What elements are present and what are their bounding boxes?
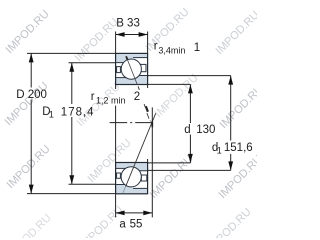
watermark IMPOD.RU bottom-right (206, 206, 254, 240)
watermark IMPOD.RU mid-bottom-left (86, 137, 134, 185)
right face extension line (147, 32, 149, 163)
contact line start mark (126, 56, 127, 59)
lower section ring opening (white gap) (116, 168, 147, 188)
lower inner-ring shoulder edge right (131, 170, 147, 172)
arrow B right (139, 32, 148, 37)
left face extension line (115, 32, 117, 218)
contact angle line lower faint end (123, 187, 126, 194)
dimension D1 extension bottom (69, 183, 116, 185)
apex knot (151, 122, 153, 128)
arrow D bottom (29, 185, 34, 194)
svg-text:178,4: 178,4 (61, 106, 95, 118)
arrow d1 bottom (228, 161, 233, 170)
watermark IMPOD.RU top-far-right (214, 9, 262, 57)
contact apex extension line for a (151, 107, 153, 217)
dimension d1 extension top (shoulder) (148, 75, 231, 77)
contact line segment tick (144, 104, 145, 107)
svg-text:130: 130 (196, 124, 215, 136)
dimension a line (116, 212, 153, 214)
lower ball (121, 167, 141, 187)
watermark IMPOD.RU right-edge (218, 83, 266, 131)
upper outer-ring shoulder edge left (116, 62, 133, 64)
contact line segment (147, 113, 149, 119)
upper section outline (116, 53, 148, 84)
arrow d top (188, 84, 193, 93)
watermark IMPOD.RU mid-right (153, 72, 201, 120)
arrow B left (116, 32, 125, 37)
lower cage pocket left (117, 173, 121, 178)
svg-text:r: r (91, 91, 95, 103)
bearing upper section body fill (116, 53, 148, 84)
upper ball (121, 59, 141, 79)
svg-text:a: a (119, 219, 126, 231)
arrow a left (116, 211, 125, 216)
upper inner-ring shoulder edge left (116, 77, 131, 79)
watermark IMPOD.RU top-mid (73, 16, 121, 64)
dimension D1 line (71, 63, 73, 185)
svg-text:2: 2 (134, 91, 140, 103)
svg-text:B 33: B 33 (116, 18, 140, 30)
dimension d line (189, 84, 191, 162)
upper inner-ring shoulder edge right (131, 75, 147, 77)
contact angle line upper (in section) (126, 56, 137, 85)
dimension d extension top (bore line) (148, 83, 191, 85)
upper outer-ring relieved edge right (133, 57, 147, 59)
lower inner-ring shoulder edge left (116, 167, 131, 169)
svg-text:1: 1 (217, 146, 222, 156)
lower section outline (116, 163, 148, 194)
svg-text:151,6: 151,6 (224, 142, 253, 154)
contact angle line lower (126, 113, 156, 186)
dimension D line (30, 53, 32, 193)
svg-text:r: r (154, 41, 158, 53)
watermark IMPOD.RU right-edge-low (217, 153, 265, 201)
axis centerline (110, 122, 153, 124)
watermark IMPOD.RU bottom-corner-left (6, 212, 54, 240)
svg-text:D 200: D 200 (16, 89, 47, 101)
watermark IMPOD.RU mid-left-edge (3, 80, 51, 128)
watermark IMPOD.RU center (75, 81, 123, 129)
arrow d bottom (188, 154, 193, 163)
watermark IMPOD.RU bottom-left (5, 143, 53, 191)
arrow D top (29, 53, 34, 62)
lower outer-ring relieved edge right (133, 187, 147, 189)
arrow d1 top (228, 76, 233, 85)
dimension d1 extension bottom (148, 169, 231, 171)
contact line faint approach to apex (150, 120, 152, 122)
lower outer-ring shoulder edge left (116, 184, 133, 186)
arrow D1 top (69, 63, 74, 72)
dimension d extension bottom (148, 162, 191, 164)
upper section ring opening (white gap) (116, 58, 147, 78)
svg-text:1,2 min: 1,2 min (96, 96, 126, 106)
svg-text:3,4min: 3,4min (158, 46, 185, 56)
upper cage pocket left (117, 67, 121, 73)
svg-text:1: 1 (49, 109, 54, 119)
dimension D extension top (27, 52, 116, 54)
upper cage pocket right (141, 64, 146, 71)
arrow D1 bottom (69, 175, 74, 184)
arrow a right (143, 211, 152, 216)
watermark IMPOD.RU bottom-center (78, 204, 126, 240)
svg-text:1: 1 (194, 42, 200, 54)
contact line segment below bore (138, 86, 139, 90)
svg-text:55: 55 (130, 219, 143, 231)
watermark IMPOD.RU bottom-mid (148, 153, 196, 201)
watermark IMPOD.RU top-right (144, 6, 192, 54)
dimension D1 extension top (69, 62, 116, 64)
svg-text:d: d (184, 124, 190, 136)
bearing lower section body fill (116, 163, 148, 194)
lower cage pocket right (141, 175, 147, 181)
dimension D extension bottom (27, 193, 116, 195)
dimension d1 line (230, 76, 232, 171)
contact line load arrow mark (146, 106, 148, 112)
watermark IMPOD.RU top-left (4, 8, 52, 56)
dimension B top line (116, 34, 148, 36)
